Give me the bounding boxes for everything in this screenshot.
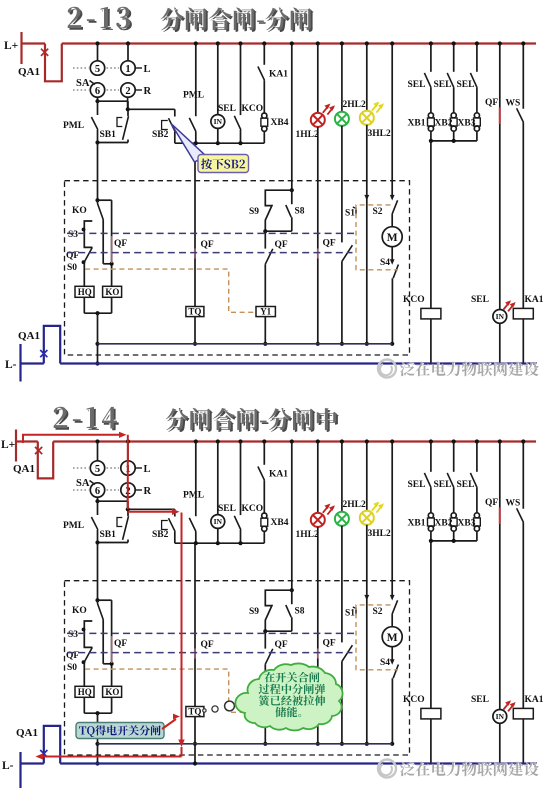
svg-text:S8: S8 bbox=[295, 607, 305, 617]
node L+ supply terminal (2-13) bbox=[4, 32, 22, 64]
coil HQ (2-14) bbox=[75, 686, 94, 713]
wire motor column feed (2-14) bbox=[390, 442, 395, 601]
wire spring linkage dashed path (2-13) bbox=[85, 269, 256, 312]
contact S9 (latch) (2-13) bbox=[249, 190, 292, 231]
contact QF (HQ branch) (2-13) bbox=[66, 247, 92, 264]
svg-text:PML: PML bbox=[63, 521, 84, 531]
wire SA dotted linkage (2-13) bbox=[73, 68, 119, 90]
svg-text:3HL2: 3HL2 bbox=[368, 529, 391, 539]
svg-text:KCO: KCO bbox=[242, 504, 264, 514]
svg-text:SEL: SEL bbox=[434, 80, 452, 90]
svg-text:QA1: QA1 bbox=[13, 463, 35, 475]
contact S0 (2-13) bbox=[67, 262, 84, 286]
svg-text:XB4: XB4 bbox=[271, 518, 289, 528]
wire SA-6 down to node A (2-14) bbox=[95, 497, 99, 503]
lamp 2HL2 (green) (2-14) bbox=[335, 442, 366, 643]
contact QF (2HL2 branch) (2-14) bbox=[323, 639, 353, 746]
svg-text:PML: PML bbox=[183, 491, 204, 501]
svg-text:5: 5 bbox=[95, 64, 100, 75]
contact PML (right) (2-14) bbox=[183, 442, 204, 544]
svg-text:QF: QF bbox=[485, 498, 498, 508]
connector XB2 (2-13) bbox=[435, 113, 458, 141]
wire KA1 column down to latch (2-14) bbox=[290, 442, 294, 593]
watermark logo and text (2-14) bbox=[378, 760, 540, 778]
svg-text:2: 2 bbox=[125, 86, 130, 97]
contact PML (left) (2-13) bbox=[63, 101, 98, 142]
callout box 按下SB2 (2-13) bbox=[198, 155, 249, 173]
svg-text:SB2: SB2 bbox=[152, 130, 169, 140]
contact QF (HQ branch) (2-14) bbox=[66, 647, 92, 664]
coil KO (2-14) bbox=[103, 686, 122, 713]
coil TQ (2-14) bbox=[186, 707, 204, 746]
svg-text:XB3: XB3 bbox=[458, 519, 476, 529]
node L- supply terminal (2-14) bbox=[2, 752, 21, 788]
switch SA contact 5 (2-13) bbox=[90, 61, 104, 75]
svg-text:SEL: SEL bbox=[457, 480, 475, 490]
svg-text:PML: PML bbox=[63, 121, 84, 131]
connector XB4 (2-13) bbox=[261, 80, 289, 143]
svg-text:IN: IN bbox=[214, 517, 223, 526]
wire node C to SB2 (2-13) bbox=[128, 109, 175, 116]
connector XB3 (2-14) bbox=[458, 513, 481, 541]
lamp IN (SEL) (2-14) bbox=[211, 442, 236, 544]
wire node F to KO coil branch (2-14) bbox=[98, 600, 128, 686]
svg-text:KA1: KA1 bbox=[269, 70, 288, 80]
contact SEL (XB2 branch) (2-14) bbox=[434, 442, 454, 513]
svg-text:KA1: KA1 bbox=[269, 470, 288, 480]
svg-text:XB1: XB1 bbox=[408, 119, 426, 129]
callout box TQ得电开关分闸 (2-14) bbox=[76, 714, 180, 739]
contact SEL (XB3 branch) (2-13) bbox=[457, 44, 478, 113]
wire QF linkage dashed line 2 (2-13) bbox=[67, 252, 353, 254]
svg-text:6: 6 bbox=[95, 486, 100, 497]
svg-text:TQ: TQ bbox=[188, 307, 201, 317]
svg-text:QF: QF bbox=[114, 639, 127, 649]
wire QF linkage dashed line 2 (2-14) bbox=[67, 652, 353, 654]
wire HQ/KO merge node G (2-14) bbox=[84, 711, 111, 715]
contact SEL (XB1 branch) (2-14) bbox=[408, 442, 432, 513]
svg-text:L: L bbox=[144, 64, 151, 75]
switch SA contact 5 (2-14) bbox=[90, 461, 104, 475]
svg-text:1HL2: 1HL2 bbox=[296, 130, 319, 140]
svg-text:QF: QF bbox=[275, 640, 288, 650]
contact KO (2-13) bbox=[72, 200, 112, 264]
node terminal R of SA (2-14) bbox=[136, 486, 152, 497]
svg-text:S4: S4 bbox=[380, 658, 390, 668]
switch SA contact 2 (2-14) bbox=[121, 483, 135, 497]
wire latch bottom bar node E (2-14) bbox=[263, 629, 292, 633]
svg-text:S9: S9 bbox=[249, 207, 259, 217]
connector XB1 (2-13) bbox=[408, 113, 435, 141]
callout pointer (press SB2) (2-13) bbox=[171, 124, 206, 163]
breaker QA1 lower label (2-13) bbox=[18, 330, 40, 342]
pushbutton SB1 (2-14) bbox=[100, 516, 129, 542]
svg-text:SEL: SEL bbox=[218, 504, 236, 514]
coil KA1 (2-14) bbox=[513, 695, 543, 764]
title 2-13 分闸合闸-分闸 bbox=[67, 6, 132, 31]
contact QF (2HL2 branch) (2-13) bbox=[323, 239, 353, 346]
lamp 1HL2 lit arrows (2-13) bbox=[323, 104, 335, 115]
svg-text:QF: QF bbox=[323, 239, 336, 249]
watermark logo and text (2-13) bbox=[378, 360, 540, 378]
contact KA1 (NO) (2-14) bbox=[258, 442, 288, 481]
switch SA contact 2 (2-13) bbox=[121, 83, 135, 97]
switch SA feed wires (2-13) bbox=[98, 44, 129, 62]
svg-text:SA: SA bbox=[76, 478, 90, 489]
lamp 2HL2 (green) (2-13) bbox=[335, 44, 366, 243]
contact QF (Y1 branch) (2-14) bbox=[265, 631, 288, 706]
lamp 1HL2 (red) (2-13) bbox=[296, 44, 325, 346]
svg-text:QF: QF bbox=[323, 639, 336, 649]
node terminal R of SA (2-13) bbox=[136, 86, 152, 97]
switch SA contact 6 (2-14) bbox=[90, 483, 104, 497]
pushbutton SB1 (2-13) bbox=[100, 116, 129, 142]
svg-text:KA1: KA1 bbox=[525, 695, 544, 705]
connector XB4 (2-14) bbox=[261, 480, 289, 543]
wire mechanism dashed box (2-13) bbox=[65, 181, 410, 355]
wire XB merge line (2-13) bbox=[429, 139, 477, 143]
lamp 1HL2 (red) (2-14) bbox=[296, 442, 325, 746]
svg-text:XB2: XB2 bbox=[435, 119, 453, 129]
contact S9 (latch) (2-14) bbox=[249, 590, 292, 631]
wire QF linkage dashed line 1 (2-14) bbox=[67, 632, 354, 634]
svg-text:XB4: XB4 bbox=[271, 118, 289, 128]
lamp 3HL2 (yellow) (2-13) bbox=[360, 44, 391, 346]
lamp IN (SEL, bottom right) (2-13) bbox=[471, 295, 507, 364]
svg-text:XB1: XB1 bbox=[408, 519, 426, 529]
coil KO (2-13) bbox=[103, 286, 122, 313]
svg-text:M: M bbox=[387, 632, 398, 644]
wire L- bus main segment (2-13) bbox=[60, 362, 537, 364]
contact QF column (to IN lamp) (2-13) bbox=[485, 44, 500, 310]
svg-text:SEL: SEL bbox=[434, 480, 452, 490]
wire SA-6 down to node A (2-13) bbox=[95, 97, 99, 103]
pushbutton SB2 (2-14) bbox=[152, 518, 175, 543]
svg-text:QA1: QA1 bbox=[16, 727, 38, 739]
wire red current path down TQ column (2-14) bbox=[178, 513, 184, 748]
svg-text:KO: KO bbox=[72, 206, 87, 216]
wire red current path from L+ (2-14) bbox=[23, 432, 127, 443]
wire main column to node F (2-14) bbox=[95, 543, 99, 603]
switch SA contact 1 (2-13) bbox=[121, 61, 135, 75]
node terminal L of SA (2-14) bbox=[136, 464, 151, 475]
contact QF column (to IN lamp) (2-14) bbox=[485, 442, 500, 710]
wire red current path down SA 1-2 (2-14) bbox=[127, 435, 129, 510]
svg-text:L: L bbox=[144, 464, 151, 475]
node bus junction dots (2-13) bbox=[95, 41, 525, 45]
wire node G down to L- bus (2-13) bbox=[95, 313, 99, 365]
wire node F to KO coil branch (2-13) bbox=[98, 200, 128, 286]
motor M (2-13) bbox=[382, 227, 402, 247]
svg-text:KO: KO bbox=[105, 687, 119, 697]
svg-text:QF: QF bbox=[275, 240, 288, 250]
wire inner return line (2-13) bbox=[98, 343, 393, 345]
svg-text:S3: S3 bbox=[68, 230, 78, 240]
svg-text:Y1: Y1 bbox=[260, 307, 271, 317]
svg-text:M: M bbox=[387, 232, 398, 244]
wire merge line D (SB2/PML/IN/KCO/XB4) (2-14) bbox=[175, 541, 264, 545]
wire node G down to L- bus (2-14) bbox=[95, 713, 99, 765]
svg-text:6: 6 bbox=[95, 86, 100, 97]
svg-text:QF: QF bbox=[201, 240, 214, 250]
wire QF linkage dashed line 1 (2-13) bbox=[67, 232, 354, 234]
wire L- bus left segment (2-13) bbox=[21, 362, 44, 364]
svg-text:1: 1 bbox=[125, 64, 130, 75]
connector XB3 (2-13) bbox=[458, 113, 481, 141]
svg-text:SEL: SEL bbox=[471, 695, 489, 705]
contact S1 label and bracket (2-13) bbox=[345, 207, 356, 219]
svg-text:R: R bbox=[144, 486, 152, 497]
wire node C to SB2 (2-14) bbox=[128, 509, 175, 516]
contact QF (Y1 branch) (2-13) bbox=[265, 231, 288, 306]
wire red current return arrow to L- (2-14) bbox=[36, 747, 182, 760]
wire motor column feed (2-13) bbox=[390, 44, 395, 201]
wire SA-2 down to node C (2-13) bbox=[126, 97, 130, 111]
svg-text:HQ: HQ bbox=[78, 287, 92, 297]
motor M (2-14) bbox=[382, 627, 402, 647]
svg-text:KCO: KCO bbox=[403, 295, 425, 305]
wire red current path to SB2 (2-14) bbox=[128, 509, 180, 515]
switch SA label and handle (2-14) bbox=[76, 478, 95, 489]
lamp 3HL2 (yellow) (2-14) bbox=[360, 442, 391, 746]
svg-text:S2: S2 bbox=[373, 207, 383, 217]
svg-text:S0: S0 bbox=[67, 263, 77, 273]
switch SA contact 6 (2-13) bbox=[90, 83, 104, 97]
coil TQ (2-13) bbox=[186, 307, 204, 346]
svg-text:IN: IN bbox=[214, 117, 223, 126]
svg-text:SEL: SEL bbox=[471, 295, 489, 305]
contact PML (right) (2-13) bbox=[183, 44, 204, 144]
svg-text:KO: KO bbox=[72, 606, 87, 616]
breaker QA1 lower (jog with x mark) (2-14) bbox=[40, 726, 60, 764]
title 2-14 分闸合闸-分闸中 bbox=[53, 406, 119, 431]
svg-text:QF: QF bbox=[201, 640, 214, 650]
svg-text:SB2: SB2 bbox=[152, 530, 169, 540]
coil HQ (2-13) bbox=[75, 286, 94, 313]
svg-text:SA: SA bbox=[76, 78, 90, 89]
coil KCO (2-14) bbox=[403, 541, 441, 764]
svg-text:3HL2: 3HL2 bbox=[368, 129, 391, 139]
svg-text:L+: L+ bbox=[4, 40, 18, 52]
svg-text:SEL: SEL bbox=[218, 104, 236, 114]
contact KCO (2-14) bbox=[234, 442, 263, 544]
wire inner return line (2-14) bbox=[98, 743, 393, 745]
wire TQ column extension to L- bus (2-14) bbox=[193, 744, 197, 766]
wire L+ bus main segment (2-13) bbox=[62, 42, 536, 44]
svg-text:KA1: KA1 bbox=[525, 295, 544, 305]
contact S3 (2-13) bbox=[68, 221, 92, 247]
wire latch bottom bar node E (2-13) bbox=[263, 229, 292, 233]
wire L+ bus left segment (2-13) bbox=[22, 42, 46, 44]
svg-text:XB2: XB2 bbox=[435, 519, 453, 529]
wire SA dotted linkage (2-14) bbox=[73, 468, 119, 490]
breaker QA1 lower label (2-14) bbox=[16, 727, 38, 739]
svg-text:WS: WS bbox=[506, 499, 521, 509]
wire merge line D (SB2/PML/IN/KCO/XB4) (2-13) bbox=[175, 141, 264, 145]
svg-text:SB1: SB1 bbox=[100, 530, 117, 540]
wire motor linkage dashed box (2-14) bbox=[356, 605, 398, 670]
callout thought bubbles (2-14) bbox=[203, 701, 235, 712]
svg-text:XB3: XB3 bbox=[458, 119, 476, 129]
contact PML (left) (2-14) bbox=[63, 501, 98, 542]
svg-text:KO: KO bbox=[105, 287, 119, 297]
contact S0 (2-14) bbox=[67, 662, 84, 686]
wire KA1 column down to latch (2-13) bbox=[290, 44, 294, 193]
wire L+ bus main segment (2-14) bbox=[53, 440, 536, 442]
contact S4 (2-14) bbox=[380, 647, 398, 746]
lamp 3HL2 lit arrows (2-14) bbox=[372, 502, 384, 513]
contact S2 (2-13) bbox=[373, 200, 398, 226]
wire node A to SB1 branch (2-13) bbox=[98, 101, 129, 116]
wire L- bus main segment (2-14) bbox=[60, 762, 537, 764]
wire main column to node F (2-13) bbox=[95, 143, 99, 203]
svg-text:2HL2: 2HL2 bbox=[343, 500, 366, 510]
svg-text:S4: S4 bbox=[380, 258, 390, 268]
contact S1 label and bracket (2-14) bbox=[345, 607, 356, 619]
svg-text:SEL: SEL bbox=[408, 80, 426, 90]
node L- supply terminal (2-13) bbox=[5, 344, 21, 382]
wire L- bus left segment (2-14) bbox=[21, 762, 44, 764]
lamp 1HL2 lit arrows (2-14) bbox=[323, 504, 335, 515]
svg-text:L-: L- bbox=[2, 760, 14, 772]
pushbutton SB2 (2-13) bbox=[152, 118, 175, 143]
coil Y1 (2-14) bbox=[256, 707, 275, 746]
svg-text:S9: S9 bbox=[249, 607, 259, 617]
svg-text:2HL2: 2HL2 bbox=[343, 100, 366, 110]
svg-text:TQ: TQ bbox=[188, 707, 201, 717]
svg-text:PML: PML bbox=[183, 91, 204, 101]
coil Y1 (2-13) bbox=[256, 307, 275, 346]
callout cloud (spring charged note) (2-14) bbox=[235, 663, 342, 730]
svg-text:L-: L- bbox=[5, 359, 17, 371]
svg-text:R: R bbox=[144, 86, 152, 97]
lamp IN lit arrows (2-14) bbox=[504, 700, 516, 711]
svg-text:S0: S0 bbox=[67, 663, 77, 673]
svg-text:SEL: SEL bbox=[457, 80, 475, 90]
svg-text:5: 5 bbox=[95, 464, 100, 475]
contact S2 (2-14) bbox=[373, 600, 398, 626]
svg-text:KCO: KCO bbox=[403, 695, 425, 705]
wire node A to SB1 branch (2-14) bbox=[98, 501, 129, 516]
breaker QA1 lower (jog with x mark) (2-13) bbox=[40, 326, 60, 364]
contact S4 (2-13) bbox=[380, 247, 398, 346]
wire merge node B (PML/SB1) (2-14) bbox=[95, 540, 128, 544]
node bus junction dots (2-14) bbox=[95, 439, 525, 443]
contact KCO (2-13) bbox=[234, 44, 263, 144]
svg-text:HQ: HQ bbox=[78, 687, 92, 697]
svg-text:S1: S1 bbox=[345, 209, 355, 219]
coil TQ column wire (2-13) bbox=[195, 143, 214, 306]
contact S8 (2-14) bbox=[286, 590, 305, 631]
connector XB1 (2-14) bbox=[408, 513, 435, 541]
contact WS (2-14) bbox=[506, 442, 524, 709]
svg-text:S2: S2 bbox=[373, 607, 383, 617]
svg-text:IN: IN bbox=[496, 312, 505, 321]
contact SEL (XB2 branch) (2-13) bbox=[434, 44, 454, 113]
lamp 3HL2 lit arrows (2-13) bbox=[372, 102, 384, 113]
svg-text:QA1: QA1 bbox=[18, 66, 40, 78]
contact SEL (XB3 branch) (2-14) bbox=[457, 442, 478, 513]
lamp IN lit arrows (2-13) bbox=[504, 300, 516, 311]
coil KCO (2-13) bbox=[403, 141, 441, 364]
coil KA1 (2-13) bbox=[513, 295, 543, 364]
contact KA1 (NO) (2-13) bbox=[258, 44, 288, 81]
svg-text:QA1: QA1 bbox=[18, 330, 40, 342]
wire spring linkage dashed path (2-14) bbox=[85, 669, 256, 712]
svg-text:QF: QF bbox=[114, 239, 127, 249]
contact SEL (XB1 branch) (2-13) bbox=[408, 44, 432, 113]
svg-text:1HL2: 1HL2 bbox=[296, 530, 319, 540]
wire HQ/KO merge node G (2-13) bbox=[84, 311, 111, 315]
wire merge node B (PML/SB1) (2-13) bbox=[95, 140, 128, 144]
connector XB2 (2-14) bbox=[435, 513, 458, 541]
svg-text:L+: L+ bbox=[1, 439, 15, 451]
svg-text:WS: WS bbox=[506, 99, 521, 109]
switch SA label and handle (2-13) bbox=[76, 78, 95, 89]
wire mechanism dashed box (2-14) bbox=[65, 581, 410, 755]
contact S3 (2-14) bbox=[68, 621, 92, 647]
svg-text:S8: S8 bbox=[295, 207, 305, 217]
svg-text:SEL: SEL bbox=[408, 480, 426, 490]
wire motor linkage dashed box (2-13) bbox=[356, 205, 398, 270]
wire SA-2 down to node C (2-14) bbox=[126, 497, 130, 511]
lamp IN (SEL, bottom right) (2-14) bbox=[471, 695, 507, 764]
contact WS (2-13) bbox=[506, 44, 524, 309]
coil TQ column wire (2-14) bbox=[195, 543, 214, 706]
node L+ supply terminal (2-14) bbox=[1, 430, 16, 462]
wire XB merge line (2-14) bbox=[429, 539, 477, 543]
svg-text:IN: IN bbox=[496, 712, 505, 721]
svg-text:S3: S3 bbox=[68, 630, 78, 640]
contact S8 (2-13) bbox=[286, 190, 305, 231]
breaker QA1 (open, jog with x mark) (2-13) bbox=[18, 44, 62, 82]
svg-text:S1: S1 bbox=[345, 609, 355, 619]
svg-text:QF: QF bbox=[485, 98, 498, 108]
lamp IN (SEL) (2-13) bbox=[211, 44, 236, 144]
contact KO (2-14) bbox=[72, 600, 112, 664]
svg-text:SB1: SB1 bbox=[100, 130, 117, 140]
svg-text:KCO: KCO bbox=[242, 104, 264, 114]
breaker QA1 (open, jog with x mark) (2-14) bbox=[13, 442, 53, 479]
switch SA contact 1 (2-14) bbox=[121, 461, 135, 475]
switch SA feed wires (2-14) bbox=[98, 442, 129, 462]
node terminal L of SA (2-13) bbox=[136, 64, 151, 75]
wire L+ bus left segment (2-14) bbox=[16, 440, 38, 442]
